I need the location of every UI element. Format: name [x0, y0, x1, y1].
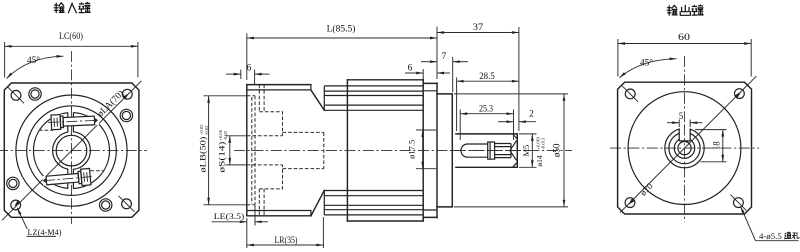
- band left verticals: [323, 86, 325, 215]
- collar hub circle d17: [53, 132, 91, 170]
- output shaft d14: [456, 134, 517, 167]
- hidden access hole top: [259, 85, 264, 112]
- shaft end chamfers: [510, 134, 517, 167]
- collar slit top: [68, 113, 74, 132]
- svg-text:øLB(50): øLB(50): [198, 136, 208, 172]
- clamp collar circle d34: [34, 113, 110, 189]
- hidden input bore d14: [247, 136, 283, 165]
- dimension 25.3: [460, 105, 513, 141]
- flange top/bottom edges: [423, 83, 437, 217]
- svg-text:60: 60: [678, 33, 690, 43]
- output boss circle d50: [628, 92, 741, 205]
- ring section verticals: [347, 80, 423, 221]
- hidden cavity box: [259, 112, 282, 189]
- diagonal bolt-circle line: [620, 76, 757, 213]
- dimension 18: [695, 130, 727, 162]
- svg-text:LZ(4-M4): LZ(4-M4): [28, 227, 62, 237]
- svg-text:25.3: 25.3: [479, 105, 493, 115]
- label LZ(4-M4) with leader: [17, 208, 61, 237]
- circle d9: [674, 138, 694, 158]
- M5 thread section: [495, 144, 511, 158]
- hidden dash near bottom screw: [91, 170, 105, 172]
- keyway erase: [680, 127, 690, 141]
- label 4-dia5.5 with leader: [741, 206, 800, 241]
- svg-text:øS(14): øS(14): [217, 141, 227, 172]
- input bore circle d14: [56, 135, 87, 166]
- svg-text:18: 18: [712, 141, 722, 151]
- hidden recess depth line: [254, 96, 256, 205]
- band lines top: [324, 86, 423, 110]
- output boss d50: [437, 94, 452, 207]
- block bottom edge: [247, 215, 311, 217]
- dimension 2: [498, 110, 536, 122]
- dimension dia14 tol: [519, 134, 546, 167]
- corner hole M4 bottom-right: [122, 199, 132, 209]
- corner hole M4 top-right: [122, 89, 132, 99]
- tick through top-left hole: [622, 86, 638, 102]
- clamp screw top: [48, 113, 99, 131]
- dimension 5 (keyway width): [667, 111, 702, 127]
- dimension dia50: [454, 94, 568, 207]
- svg-text:6: 6: [408, 63, 413, 73]
- dia70 arrows on diagonal: [628, 198, 634, 204]
- svg-text:45°: 45°: [27, 55, 40, 66]
- dimension 28.5: [457, 72, 519, 131]
- svg-text:6: 6: [247, 64, 252, 74]
- dimension 6 right: [405, 63, 450, 79]
- main centerline: [234, 150, 572, 152]
- 45 degree note: [620, 58, 677, 78]
- dimension 60: [618, 33, 751, 77]
- svg-text:LR(35): LR(35): [275, 235, 298, 245]
- flange circle d50: [16, 95, 127, 206]
- ring section top/bottom: [347, 80, 423, 221]
- collar slit bottom: [68, 169, 74, 188]
- clamp screw bottom: [42, 168, 93, 190]
- screw head hole bottom-right: [100, 199, 112, 211]
- dimension L(85.5): [247, 24, 437, 81]
- bottom taper: [311, 190, 324, 216]
- title 输出端 (hand-drawn CJK strokes): [667, 5, 703, 15]
- hidden bore d17.5: [283, 132, 324, 168]
- dimension LE(3.5): [212, 205, 269, 226]
- centerline vertical: [684, 56, 686, 222]
- output flange chamfer lines: [423, 91, 437, 210]
- centerline horizontal: [610, 147, 759, 149]
- svg-text:2: 2: [529, 110, 534, 120]
- top taper: [311, 90, 324, 110]
- corner hole top-left: [625, 89, 635, 99]
- svg-text:37: 37: [473, 23, 484, 33]
- M5 hole circle: [678, 142, 691, 155]
- dimension dia LB(50) tol: [198, 96, 247, 205]
- title 输入端 (hand-drawn CJK strokes): [54, 2, 90, 12]
- 45 degree note: [7, 55, 64, 79]
- screw head hole top-left: [29, 88, 41, 100]
- keyway slot: [679, 129, 690, 141]
- corner hole M4 bottom-left: [11, 200, 21, 210]
- block bottom chamfer edge: [247, 211, 311, 216]
- block top edge: [247, 84, 311, 86]
- dimension dia S(14) tol: [217, 129, 247, 172]
- svg-text:7: 7: [442, 52, 447, 62]
- svg-text:ø17.5: ø17.5: [407, 140, 417, 159]
- square flange outline (chamfered corners): [618, 82, 752, 214]
- block top chamfer edge: [247, 85, 311, 90]
- centerline vertical: [71, 51, 73, 224]
- svg-text:ø14: ø14: [535, 155, 544, 167]
- slit erase bottom: [68, 168, 73, 193]
- screw head hole top-right: [120, 109, 132, 121]
- svg-text:4-ø5.5: 4-ø5.5: [759, 231, 782, 241]
- CJK 通孔: [784, 232, 799, 239]
- svg-text:-0.02: -0.02: [223, 130, 228, 140]
- svg-text:LE(3.5): LE(3.5): [214, 211, 245, 221]
- dimension LC(60): [5, 31, 138, 78]
- square flange outline (chamfered corners): [4, 83, 139, 217]
- circle d40: [27, 106, 117, 196]
- svg-text:45°: 45°: [640, 58, 653, 69]
- svg-text:LC(60): LC(60): [59, 31, 83, 41]
- slit erase top: [68, 109, 73, 134]
- svg-text:ø50: ø50: [552, 143, 562, 157]
- shaft centerline: [450, 150, 523, 152]
- band lines bottom: [324, 191, 423, 215]
- svg-text:L(85.5): L(85.5): [327, 24, 356, 35]
- hidden dash near top screw: [39, 129, 53, 131]
- corner hole bottom-right: [734, 198, 744, 208]
- svg-text:28.5: 28.5: [479, 72, 495, 82]
- svg-text:-0.02: -0.02: [204, 125, 209, 135]
- dimension 7: [421, 52, 468, 92]
- centerline horizontal: [0, 150, 147, 152]
- dimension LR(35): [247, 217, 324, 248]
- corner hole top-right: [735, 89, 745, 99]
- screw head hole bottom-left: [7, 177, 19, 189]
- corner hole bottom-left: [625, 198, 635, 208]
- svg-text:5: 5: [679, 111, 684, 121]
- centerline vertical redraw over slit: [71, 107, 73, 135]
- key cross box: [488, 142, 495, 159]
- dimension 37: [437, 23, 519, 131]
- svg-text:-0.013: -0.013: [541, 137, 546, 150]
- input face: [246, 85, 248, 216]
- tick through bottom-right hole: [730, 195, 746, 211]
- tick through top-left hole: [8, 87, 24, 103]
- LA(70) diameter arrows: [14, 200, 20, 206]
- tick through bottom-right hole: [119, 196, 135, 212]
- keyway slot: [461, 144, 488, 157]
- shaft circle d14: [669, 133, 700, 164]
- dimension dia17.5: [407, 130, 437, 169]
- hidden recess edges: [247, 96, 255, 205]
- dimension 6 left: [226, 64, 270, 85]
- boss circle d17.5: [665, 128, 704, 167]
- centerline vertical redraw: [684, 125, 686, 143]
- output flange face: [436, 83, 438, 218]
- hidden recess chamfer line: [251, 97, 253, 204]
- svg-text:M5: M5: [521, 145, 531, 157]
- hidden access hole bottom: [259, 189, 264, 216]
- diagonal bolt-circle line: [2, 81, 142, 221]
- corner hole M4 top-left: [11, 90, 21, 100]
